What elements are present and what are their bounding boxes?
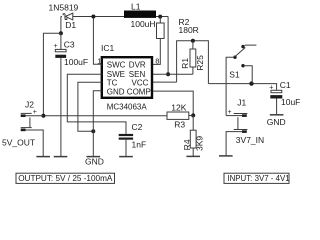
svg-text:8: 8 <box>155 56 159 65</box>
svg-text:3K9: 3K9 <box>195 136 205 151</box>
svg-text:DVR: DVR <box>129 60 146 69</box>
node: pin7/R1/L1 junction dot <box>166 72 170 76</box>
svg-text:GND: GND <box>85 157 104 167</box>
capacitor C1 10uF (electrolytic) <box>270 90 282 114</box>
label 180R <box>179 25 199 35</box>
pin label GND <box>107 87 125 96</box>
svg-text:D1: D1 <box>65 20 76 30</box>
label J1 <box>237 98 246 108</box>
svg-text:J1: J1 <box>237 98 246 108</box>
svg-text:C1: C1 <box>280 80 291 90</box>
label + for C3 <box>54 43 58 50</box>
wire: VCC rail <box>153 41 208 84</box>
label 5V_OUT <box>2 137 35 147</box>
pin label SEN <box>129 70 146 79</box>
svg-text:C2: C2 <box>132 122 143 132</box>
svg-text:5V_OUT: 5V_OUT <box>2 137 35 147</box>
label S1 <box>229 70 240 80</box>
label MC34063A <box>107 102 148 111</box>
svg-text:L1: L1 <box>131 2 141 12</box>
ground for IC <box>87 156 101 158</box>
wire: top output/switch node y=16.5 <box>61 16 168 18</box>
label 3K9 (rotated) <box>195 136 205 151</box>
node: feedback junction dot <box>191 113 195 117</box>
pin label VCC <box>132 79 149 88</box>
label R25 (rotated) <box>195 55 205 71</box>
node: J2 plus junction dot <box>41 114 45 118</box>
label GND <box>85 157 104 167</box>
inductor L1 (solid bar) <box>124 11 156 18</box>
svg-text:R1: R1 <box>180 58 190 69</box>
label J2 <box>25 100 34 110</box>
wire: cathode corner down to node A <box>60 17 62 34</box>
diode D1 (1N5819) <box>63 13 73 20</box>
ground for C2 <box>119 156 133 158</box>
svg-text:OUTPUT: 5V / 25 -100mA: OUTPUT: 5V / 25 -100mA <box>18 174 113 183</box>
node: L1 right / R2 tap junction dot <box>158 15 162 19</box>
label 10uF <box>281 97 300 107</box>
wire: pin7 horizontal <box>153 73 193 75</box>
pin label SWC <box>107 60 126 69</box>
wire: pin1 SWC to top node <box>93 17 101 65</box>
ground for C1 <box>270 114 284 116</box>
capacitor C2 1nF <box>119 134 133 157</box>
resistor R4 3K9 <box>190 115 196 156</box>
pin label DVR <box>129 60 146 69</box>
label L1 <box>131 2 141 12</box>
svg-text:INPUT: 3V7 - 4V1: INPUT: 3V7 - 4V1 <box>227 174 289 183</box>
label 1N5819 <box>49 2 79 12</box>
connector J2 (5V output) <box>21 113 44 156</box>
pin label TC <box>107 79 118 88</box>
switch S1 <box>226 45 256 116</box>
svg-text:GND: GND <box>107 87 125 96</box>
label 3V7_IN <box>236 135 264 145</box>
label 12K <box>171 102 186 112</box>
node: TC/GND junction dot <box>91 129 95 133</box>
node: pin1 tap junction dot <box>91 15 95 19</box>
label R4 (rotated) <box>182 139 192 150</box>
wire: pin2 SWE to C2 <box>67 74 126 134</box>
label C2 <box>132 122 143 132</box>
svg-text:180R: 180R <box>179 25 199 35</box>
node A junction dot (output node) <box>59 31 63 35</box>
output note box <box>16 173 115 183</box>
label R3 <box>174 120 185 130</box>
svg-text:3V7_IN: 3V7_IN <box>236 135 264 145</box>
ground for C3 <box>54 156 68 158</box>
wire: pin3 TC branch <box>78 82 102 131</box>
label 100uH <box>131 19 156 29</box>
svg-text:R4: R4 <box>182 139 192 150</box>
svg-text:12K: 12K <box>171 102 186 112</box>
label D1 <box>65 20 76 30</box>
connector J1 (3V7 input) <box>226 114 247 156</box>
wire: pin5 COMP to divider <box>153 91 193 115</box>
ground for J2 <box>36 156 50 158</box>
label + for J2 <box>33 109 37 116</box>
svg-text:100uF: 100uF <box>64 57 88 67</box>
pin number 8 <box>155 56 159 65</box>
label + for C1 <box>269 85 273 92</box>
svg-text:10uF: 10uF <box>281 97 300 107</box>
svg-text:1N5819: 1N5819 <box>49 2 79 12</box>
label C3 <box>64 39 75 49</box>
pin number 1 <box>97 56 101 65</box>
svg-text:C3: C3 <box>64 39 75 49</box>
svg-text:100uH: 100uH <box>131 19 156 29</box>
label R1 (rotated) <box>180 58 190 69</box>
svg-text:1nF: 1nF <box>132 140 147 150</box>
pin label COMP <box>127 87 151 96</box>
pin label SWE <box>107 70 125 79</box>
svg-text:+: + <box>269 85 273 92</box>
label IC1 <box>101 43 115 53</box>
label GND under C1 <box>267 117 286 127</box>
svg-text:MC34063A: MC34063A <box>107 102 148 111</box>
label + for J1 <box>228 109 232 116</box>
resistor R1 (R25 current sense) <box>190 41 196 74</box>
ground for R4 <box>186 155 200 157</box>
node: battery/C1 junction dot <box>249 81 253 85</box>
svg-text:S1: S1 <box>229 70 240 80</box>
label 100uF <box>64 57 88 67</box>
resistor R2 <box>153 17 164 65</box>
svg-text:+: + <box>54 43 58 50</box>
wire: Vin horizontal y=83.6 <box>208 84 276 91</box>
label C1 <box>280 80 291 90</box>
svg-text:+: + <box>228 109 232 116</box>
node: rail/R1 top junction dot <box>191 39 195 43</box>
wire: pin4 GND down <box>93 91 102 157</box>
input note box <box>224 173 290 183</box>
svg-text:IC1: IC1 <box>101 43 115 53</box>
label 1nF <box>132 140 147 150</box>
svg-text:R3: R3 <box>174 120 185 130</box>
svg-text:VCC: VCC <box>132 79 149 88</box>
ground for J1 <box>219 155 233 157</box>
wire: node A left and down to J2 <box>43 33 61 116</box>
resistor R3 12K <box>167 112 193 119</box>
svg-text:COMP: COMP <box>127 87 151 96</box>
IC U1 MC34063A body <box>102 57 152 98</box>
wire: long output wire y=115.6 <box>43 115 167 117</box>
svg-text:+: + <box>33 109 37 116</box>
wire: Vin sense node down to pin7 <box>167 17 169 75</box>
svg-text:J2: J2 <box>25 100 34 110</box>
label R2 <box>179 17 190 27</box>
svg-text:R25: R25 <box>195 55 205 71</box>
svg-text:TC: TC <box>107 79 118 88</box>
svg-text:SWC: SWC <box>107 60 126 69</box>
capacitor C3 100uF (electrolytic) <box>55 33 66 156</box>
svg-text:GND: GND <box>267 117 286 127</box>
